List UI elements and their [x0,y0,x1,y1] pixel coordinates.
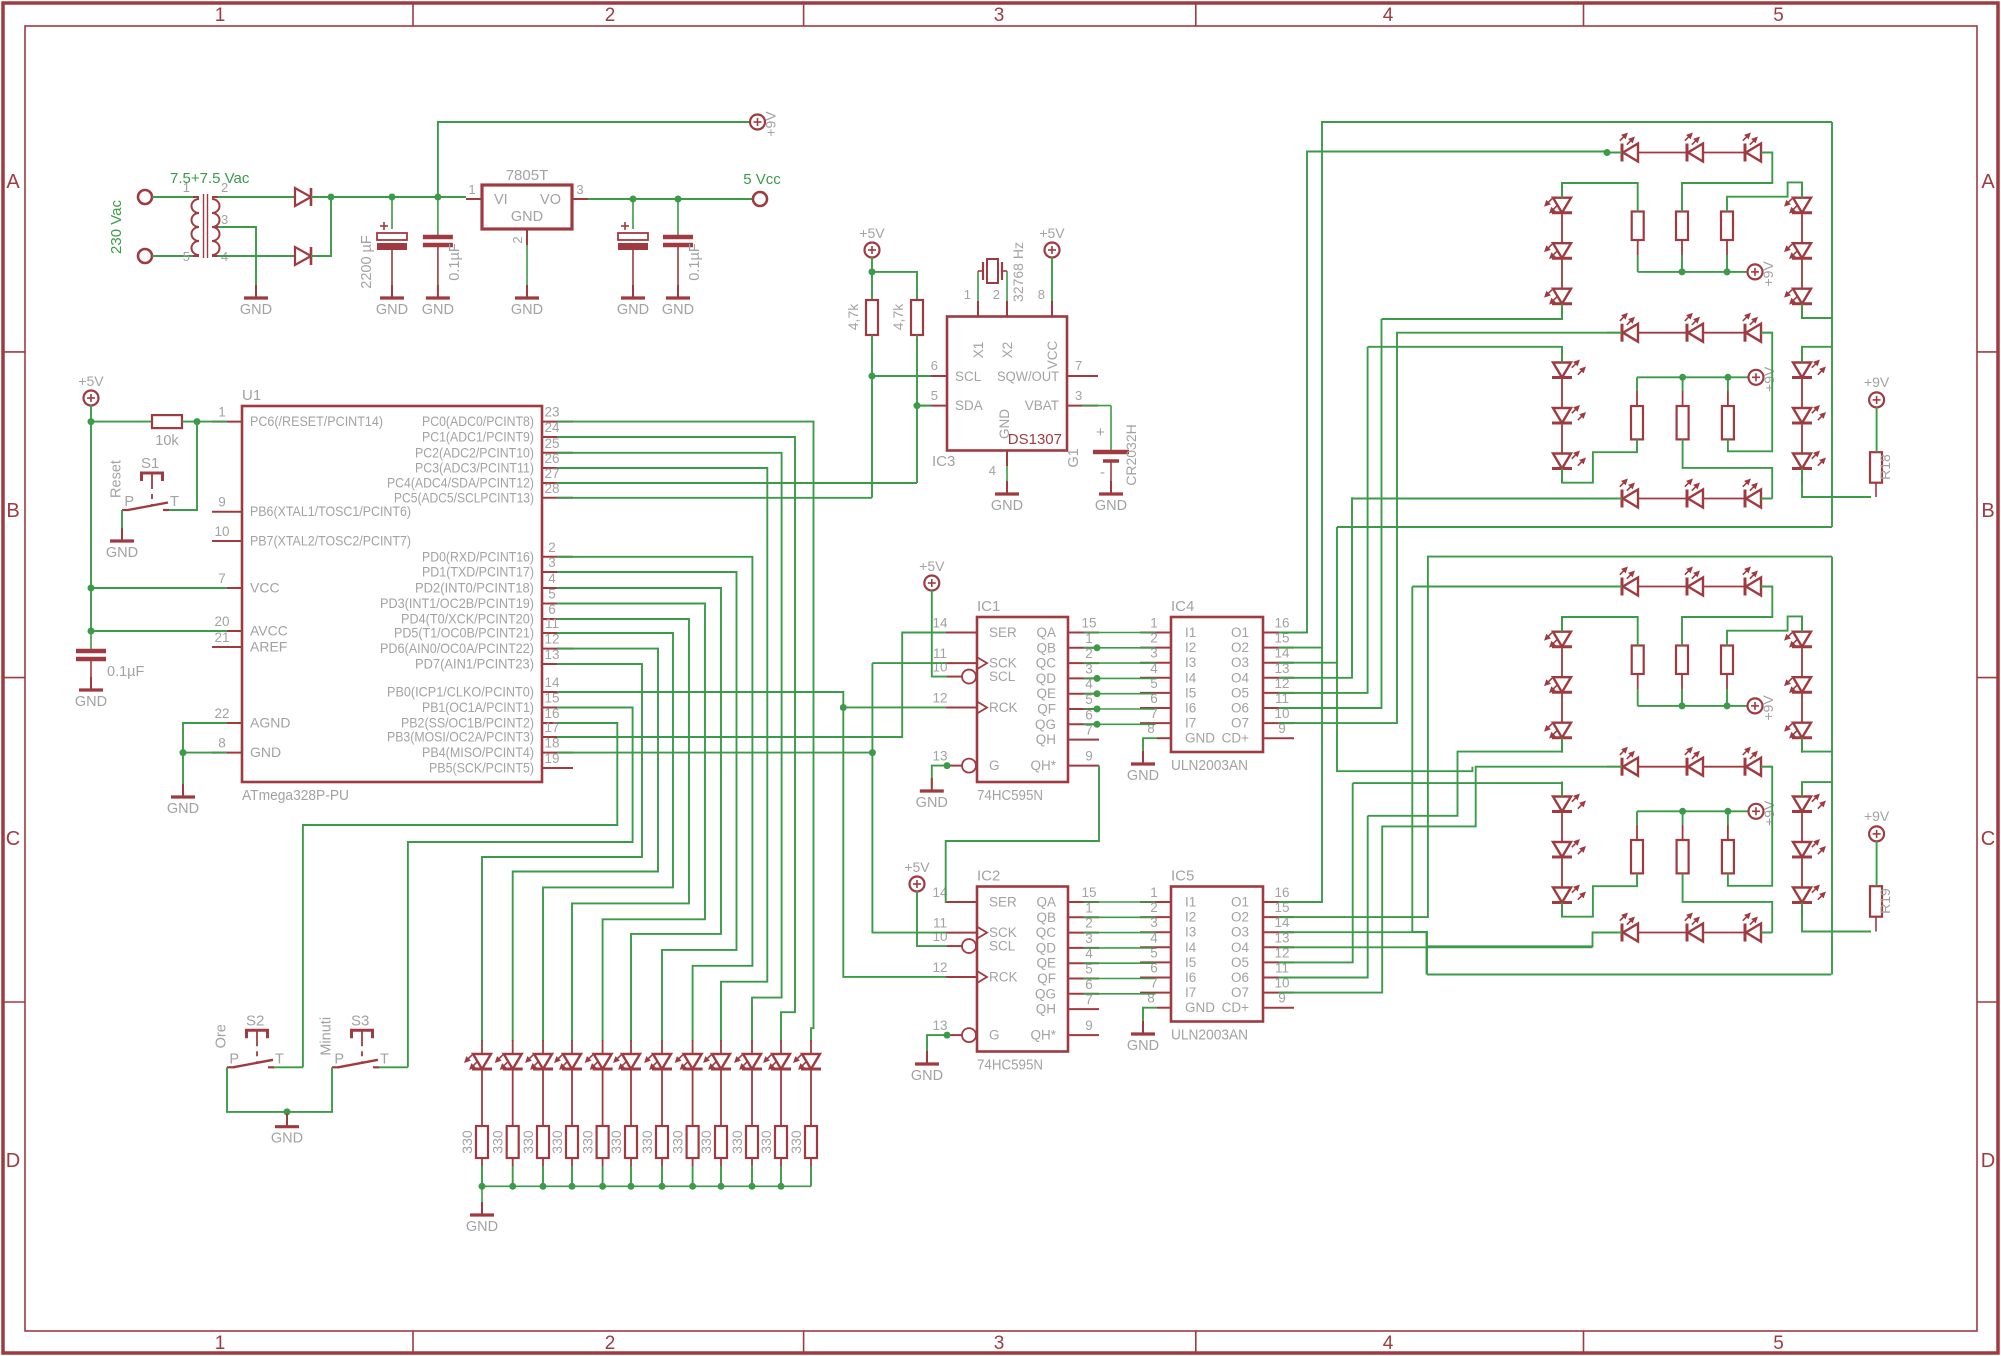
junction [869,373,876,380]
svg-text:AVCC: AVCC [250,623,288,639]
svg-text:2: 2 [993,287,1000,302]
svg-text:5 Vcc: 5 Vcc [743,171,781,188]
svg-text:PC4(ADC4/SDA/PCINT12): PC4(ADC4/SDA/PCINT12) [387,475,534,491]
resistor R2 4,7k [911,300,923,335]
svg-text:21: 21 [214,630,229,645]
net PB2->S2 [303,723,617,1067]
wire [182,753,184,793]
svg-text:I5: I5 [1185,955,1196,970]
net PB1->S3 [408,708,633,1068]
svg-text:GND: GND [250,744,281,760]
svg-text:A: A [1981,171,1995,193]
svg-text:T: T [380,1051,389,1067]
svg-text:+9V: +9V [763,111,779,137]
capacitor C3 [632,199,634,229]
svg-text:SER: SER [989,895,1017,910]
svg-text:I1: I1 [1185,625,1196,640]
wire vcc8 [1051,257,1053,301]
ground 7805 [526,285,528,298]
svg-text:3: 3 [994,1333,1005,1354]
ring1 left column LEDs [1561,183,1563,198]
svg-text:32768 Hz: 32768 Hz [1010,242,1026,302]
net O2' ring3 [1279,557,1833,918]
wire lcol3 bottom out [1368,738,1562,816]
svg-text:QB: QB [1036,910,1056,925]
driver IC5 ULN2003AN [1171,887,1263,1022]
svg-text:P: P [334,1051,344,1067]
svg-text:X1: X1 [971,342,986,359]
svg-text:PB5(SCK/PCINT5): PB5(SCK/PCINT5) [429,760,534,776]
svg-text:0.1µF: 0.1µF [447,243,463,281]
wire sda to U1 [557,482,917,484]
svg-text:8: 8 [1038,287,1045,302]
svg-text:1: 1 [1150,616,1158,631]
junction [434,194,441,201]
diode D1 [295,188,311,206]
svg-text:SCL: SCL [989,939,1016,954]
svg-text:4,7k: 4,7k [845,303,861,330]
svg-text:IC2: IC2 [977,868,1000,885]
terminal +9V ring1 [1748,264,1763,279]
svg-text:IC5: IC5 [1171,868,1194,885]
svg-text:U1: U1 [242,387,261,404]
svg-text:1: 1 [468,182,475,197]
svg-text:IC1: IC1 [977,598,1000,615]
svg-text:1: 1 [218,405,226,420]
wire +9V rail3 [1637,674,1639,689]
ring2 left column LEDs [1561,348,1563,363]
svg-text:I5: I5 [1185,685,1196,700]
svg-text:GND: GND [271,1131,303,1147]
wire O3 jog [1337,526,1832,528]
transformer TR1 [192,199,199,213]
svg-text:R18: R18 [1877,454,1893,480]
wire +9V rail4 [1636,825,1638,840]
svg-text:230 Vac: 230 Vac [108,200,125,254]
svg-text:+5V: +5V [919,558,945,574]
svg-text:330: 330 [758,1130,774,1154]
svg-text:1: 1 [964,287,971,302]
svg-text:SQW/OUT: SQW/OUT [997,369,1059,384]
svg-text:I2: I2 [1185,910,1196,925]
svg-text:O5: O5 [1231,685,1249,700]
svg-text:I1: I1 [1185,895,1196,910]
svg-text:10: 10 [932,660,947,675]
capacitor C4 0.1uF [677,199,679,237]
wire IC5 gnd [1143,1008,1157,1030]
wire IC2 SCL tie [917,891,947,946]
svg-text:74HC595N: 74HC595N [977,1057,1043,1074]
wire rcol top to res3 r3 [1727,616,1802,645]
net O7' ring4 [1279,767,1623,993]
net O1' ring3 [1279,648,1323,902]
svg-text:SER: SER [989,625,1017,640]
svg-text:4: 4 [989,463,996,478]
ground C3 [632,285,634,298]
crystal Q1 32768Hz [977,271,979,301]
terminal +5V (IC2) [910,877,925,892]
svg-text:+9V: +9V [1761,366,1777,392]
terminal +5V (RTC vcc) [1045,243,1060,258]
svg-text:QB: QB [1036,640,1056,655]
svg-text:CD+: CD+ [1222,731,1249,746]
svg-text:+5V: +5V [1039,225,1065,241]
resistor R19 [1870,886,1882,917]
svg-text:T: T [275,1051,284,1067]
terminal +9V ring2 [1749,370,1764,385]
svg-text:9: 9 [1085,749,1093,764]
wire rcol4 bottom tie [1802,903,1871,932]
svg-text:7: 7 [218,571,226,586]
capacitor C1 2200uF [391,197,393,229]
svg-text:QG: QG [1035,986,1056,1001]
svg-text:G: G [989,1028,1000,1043]
svg-text:QE: QE [1036,956,1056,971]
svg-text:Ore: Ore [214,1024,230,1048]
svg-text:4: 4 [1383,1333,1394,1354]
svg-text:25: 25 [544,436,559,451]
net O6' ring3 [1279,816,1368,978]
svg-text:2: 2 [510,236,525,243]
wire row4b right [1761,932,1772,934]
junction [328,194,335,201]
svg-text:330: 330 [670,1130,686,1154]
svg-text:GND: GND [916,795,948,811]
wire sda net [916,335,918,483]
svg-text:5: 5 [931,388,938,403]
svg-text:O2: O2 [1231,640,1249,655]
ring2 top row LEDs [1621,324,1624,342]
LED1-12 + resistors 330 [481,1040,483,1054]
wire S1-T [169,422,197,510]
svg-text:20: 20 [214,614,229,629]
junction [284,1108,291,1115]
svg-text:PD7(AIN1/PCINT23): PD7(AIN1/PCINT23) [415,656,534,672]
svg-text:SCL: SCL [989,669,1016,684]
svg-text:GND: GND [376,302,408,318]
svg-text:PC1(ADC1/PCINT9): PC1(ADC1/PCINT9) [422,429,534,445]
svg-text:GND: GND [1185,731,1215,746]
junction [88,628,95,635]
net O7 ring2 [1279,333,1623,723]
svg-text:QC: QC [1036,656,1057,671]
wires IC2->IC5 [1084,901,1156,903]
svg-text:1: 1 [215,5,226,26]
wire res2 to row bottom r4 [1683,873,1773,932]
svg-text:4: 4 [548,571,556,586]
switch S1 Reset [142,473,163,481]
terminal +9V [750,115,765,130]
svg-text:14: 14 [544,675,560,690]
ground LED row [481,1202,483,1215]
svg-text:+5V: +5V [78,373,104,389]
svg-text:+5V: +5V [904,859,930,875]
svg-text:3: 3 [548,555,556,570]
svg-text:I7: I7 [1185,716,1196,731]
svg-text:330: 330 [459,1130,475,1154]
svg-text:ULN2003AN: ULN2003AN [1171,757,1248,774]
svg-text:PD5(T1/OC0B/PCINT21): PD5(T1/OC0B/PCINT21) [394,625,534,641]
svg-text:10: 10 [214,524,229,539]
wire QH* chain [946,766,1099,902]
svg-text:PB7(XTAL2/TOSC2/PCINT7): PB7(XTAL2/TOSC2/PCINT7) [250,533,411,549]
svg-text:O6: O6 [1231,701,1249,716]
svg-text:GND: GND [75,694,107,710]
svg-text:GND: GND [1127,1038,1159,1054]
net O3' jog [1279,932,1427,974]
svg-text:I7: I7 [1185,985,1196,1000]
svg-text:9: 9 [1085,1018,1093,1033]
ring4 bottom row LEDs [1621,924,1624,942]
junction [88,418,95,425]
svg-text:1: 1 [1150,885,1158,900]
svg-text:10k: 10k [155,433,179,449]
svg-text:PC5(ADC5/SCLPCINT13): PC5(ADC5/SCLPCINT13) [394,489,534,505]
terminal +5V (RTC pullups) [865,243,880,258]
ring2 right column LEDs [1801,348,1803,363]
svg-text:330: 330 [580,1130,596,1154]
svg-text:+9V: +9V [1864,808,1890,824]
svg-text:P: P [124,494,134,510]
svg-text:QH: QH [1036,1002,1056,1017]
wires IC1->IC4 [1084,632,1156,634]
ring1 top row LEDs [1621,144,1624,162]
wire O3' jog [1427,974,1831,976]
svg-text:GND: GND [991,498,1023,514]
wire res tops [1562,183,1638,212]
svg-text:12: 12 [932,960,947,975]
svg-text:R19: R19 [1877,888,1893,914]
svg-text:A: A [6,171,20,193]
svg-text:GND: GND [662,302,694,318]
junction [88,585,95,592]
terminal +9V ring3 [1748,698,1763,713]
wire VCC [91,587,227,589]
junction [630,196,637,203]
svg-text:13: 13 [932,1018,947,1033]
svg-text:X2: X2 [1000,342,1015,359]
wire +9V rail2 [1636,391,1638,406]
wire D2 out [311,197,331,256]
svg-text:16: 16 [1274,616,1289,631]
svg-text:PD3(INT1/OC2B/PCINT19): PD3(INT1/OC2B/PCINT19) [380,595,534,611]
wire rcol1 top to res3 [1727,182,1802,211]
wire row right to res2 r3 [1682,587,1772,646]
terminal X1-1 (230 Vac) [138,190,152,204]
svg-text:VO: VO [540,192,561,208]
svg-text:IC4: IC4 [1171,598,1194,615]
wire rcol4 top tie [1802,782,1832,796]
svg-text:14: 14 [932,616,948,631]
svg-text:QA: QA [1036,625,1056,640]
ground C5 [90,677,92,690]
wire sec-bot [218,255,295,257]
svg-text:QE: QE [1036,686,1056,701]
svg-text:330: 330 [698,1130,714,1154]
wire gnd stem [286,1112,288,1123]
svg-text:GND: GND [1185,1000,1215,1015]
ground IC2 [926,1051,928,1064]
wire VO out [588,198,753,200]
junction [389,194,396,201]
rtc IC3 DS1307 [947,317,1067,451]
svg-text:16: 16 [1274,885,1289,900]
svg-text:VCC: VCC [1045,341,1060,370]
terminal +9V ring4 [1749,804,1764,819]
svg-text:C: C [1981,828,1995,850]
svg-text:B: B [6,500,19,522]
wire sec-top [218,196,295,198]
svg-text:QA: QA [1036,895,1056,910]
wire IC4 gnd [1143,738,1157,760]
svg-text:PC2(ADC2/PCINT10): PC2(ADC2/PCINT10) [415,444,534,460]
ground S1 [121,528,123,541]
svg-text:QH*: QH* [1030,758,1056,773]
net O5 ring2 [1279,347,1368,693]
shift-register IC1 74HC595N [977,617,1068,782]
ring2 bottom row LEDs [1621,490,1624,508]
resistor R18 [1870,452,1882,483]
wire R18 [1876,407,1878,452]
svg-text:O7: O7 [1231,985,1249,1000]
svg-text:1: 1 [183,180,190,195]
junction [840,704,847,711]
ground IC3 [1006,481,1008,494]
U1 left pins [212,421,242,423]
svg-text:1: 1 [215,1333,226,1354]
svg-text:QC: QC [1036,925,1057,940]
svg-text:QH: QH [1036,732,1056,747]
svg-text:Minuti: Minuti [319,1017,335,1056]
wire res2-2 to row3 [1683,439,1773,498]
svg-text:GND: GND [106,545,138,561]
svg-text:PB0(ICP1/CLKO/PCINT0): PB0(ICP1/CLKO/PCINT0) [387,684,534,700]
wire S3-T [379,1066,408,1068]
svg-text:VCC: VCC [250,580,280,596]
wire GND8 [183,752,227,754]
net O4' ring4 [1279,946,1593,948]
wire row2 right to res3 [1728,333,1772,452]
svg-text:8: 8 [1147,991,1155,1006]
ring3 top row LEDs [1621,578,1624,596]
svg-text:GND: GND [240,302,272,318]
svg-text:IC3: IC3 [932,453,955,470]
svg-text:PB3(MOSI/OC2A/PCINT3): PB3(MOSI/OC2A/PCINT3) [387,729,534,745]
wire row1 right to res2 [1682,153,1772,212]
ground U1 [182,784,184,797]
svg-text:RCK: RCK [989,700,1018,715]
svg-text:GND: GND [511,302,543,318]
svg-text:PC0(ADC0/PCINT8): PC0(ADC0/PCINT8) [422,413,534,429]
svg-text:S1: S1 [141,455,159,472]
svg-text:O2: O2 [1231,910,1249,925]
junction [1604,149,1611,156]
junction [944,1032,951,1039]
svg-text:330: 330 [549,1130,565,1154]
svg-text:I4: I4 [1185,940,1197,955]
svg-text:6: 6 [548,602,556,617]
ground C1 [391,285,393,298]
svg-text:Reset: Reset [109,460,125,498]
svg-text:GND: GND [422,302,454,318]
switch S3 Minuti [352,1030,373,1038]
junction [869,749,876,756]
svg-text:GND: GND [511,209,543,225]
shift-register IC2 74HC595N [977,887,1068,1052]
svg-text:PD0(RXD/PCINT16): PD0(RXD/PCINT16) [422,548,534,564]
ring4 top row LEDs [1621,758,1624,776]
svg-text:3: 3 [221,212,228,227]
svg-text:3: 3 [576,182,583,197]
svg-text:QG: QG [1035,717,1056,732]
wire [182,421,227,423]
svg-text:O6: O6 [1231,970,1249,985]
wire R19 [1876,841,1878,886]
svg-text:23: 23 [544,405,559,420]
net PB3/SER [557,633,946,738]
ground IC1 [931,778,933,791]
svg-text:I6: I6 [1185,701,1196,716]
net O5' ring4 [1279,783,1353,962]
vertical bus x1832 (rings1-2) [1831,122,1833,527]
svg-text:GND: GND [1095,498,1127,514]
terminal +5V (U1) [84,391,99,406]
svg-text:8: 8 [218,736,226,751]
svg-text:0.1µF: 0.1µF [687,243,703,281]
wire +9V rail1 [1637,240,1639,255]
junction [194,418,201,425]
svg-text:PD6(AIN0/OC0A/PCINT22): PD6(AIN0/OC0A/PCINT22) [380,640,534,656]
wire D1 out [311,196,466,198]
svg-text:PB1(OC1A/PCINT1): PB1(OC1A/PCINT1) [422,699,534,715]
svg-text:330: 330 [520,1130,536,1154]
wire row3 left feed [1352,498,1622,500]
regulator IC6 7805T [482,185,572,229]
wire [152,196,193,198]
svg-text:AREF: AREF [250,639,287,655]
svg-text:6: 6 [931,358,938,373]
svg-text:5: 5 [1773,1333,1784,1354]
svg-text:+: + [1096,424,1105,441]
svg-text:I3: I3 [1185,655,1196,670]
wire IC1 SCL tie [932,590,947,677]
svg-text:D: D [6,1150,20,1172]
resistor R? 10k [152,415,182,428]
wire rcol2 bottom tie [1802,469,1871,498]
svg-text:8: 8 [1147,721,1155,736]
wire rcol2 top tie [1802,347,1832,363]
svg-text:330: 330 [639,1130,655,1154]
svg-text:330: 330 [608,1130,624,1154]
svg-text:+9V: +9V [1761,800,1777,826]
svg-text:GND: GND [167,801,199,817]
ring3 resistors [1632,646,1644,675]
wire IC2 G gnd [927,1035,947,1060]
svg-text:C: C [6,828,20,850]
svg-text:O4: O4 [1231,940,1250,955]
svg-text:RCK: RCK [989,969,1018,984]
svg-text:S2: S2 [246,1012,264,1029]
svg-text:74HC595N: 74HC595N [977,787,1043,804]
svg-text:+9V: +9V [1760,261,1776,287]
svg-text:PD2(INT0/PCINT18): PD2(INT0/PCINT18) [415,580,534,596]
driver IC4 ULN2003AN [1171,617,1263,752]
svg-text:330: 330 [788,1130,804,1154]
svg-text:VBAT: VBAT [1025,398,1059,413]
net PB0/RCK [557,692,946,977]
svg-text:QD: QD [1036,940,1057,955]
svg-text:O3: O3 [1231,655,1249,670]
